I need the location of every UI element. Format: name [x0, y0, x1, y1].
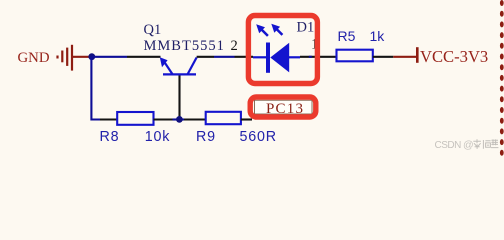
svg-text:R5: R5 [338, 28, 356, 44]
svg-text:R8: R8 [100, 129, 120, 145]
wire GND junction to Q1 emitter [92, 56, 127, 58]
wire bottom rail left [100, 118, 117, 120]
R9 left pin [184, 118, 206, 120]
svg-text:CSDN: CSDN [435, 140, 462, 151]
svg-text:10k: 10k [145, 129, 171, 145]
highlight box D1 [248, 16, 317, 84]
junction node A [88, 53, 95, 60]
Q1 base pin [178, 76, 180, 118]
transistor Q1 body [163, 58, 197, 75]
watermark CJK glyph blocks [473, 139, 498, 149]
wire junction down to bottom rail [91, 57, 100, 120]
svg-text:Q1: Q1 [144, 22, 162, 38]
Q1 emitter arrowhead [160, 57, 168, 67]
LED D1 symbol [253, 43, 300, 73]
dashed region border right [500, 0, 504, 156]
R5 right pin [373, 56, 394, 58]
net label plate PC13 [255, 100, 313, 114]
R8 right pin [154, 118, 173, 120]
wire stub [309, 56, 312, 58]
ground symbol [58, 45, 91, 71]
R9 right pin to PC13 [241, 118, 252, 120]
svg-text:MMBT5551: MMBT5551 [144, 38, 225, 54]
svg-text:2: 2 [231, 38, 238, 54]
resistor R5 [337, 50, 373, 62]
svg-text:GND: GND [18, 50, 50, 66]
Q1 emitter pin [127, 56, 161, 58]
junction node B [176, 116, 183, 123]
svg-text:VCC-3V3: VCC-3V3 [420, 47, 488, 66]
resistor R8 [117, 112, 153, 125]
wire R8 to junction [173, 118, 185, 120]
svg-text:R9: R9 [196, 129, 216, 145]
LED emission arrow 1 [261, 29, 268, 36]
wire Q1 collector to D1 [214, 56, 235, 58]
highlight box PC13 [250, 97, 316, 117]
svg-text:D1: D1 [297, 20, 315, 36]
D1 anode pin and wire to R5 [300, 56, 337, 58]
LED emission arrow 2 [276, 28, 283, 35]
D1 cathode pin [235, 56, 254, 58]
power port VCC-3V3 [393, 47, 417, 63]
resistor R9 [206, 112, 241, 124]
Q1 collector pin, pin 2 [197, 56, 214, 58]
svg-text:560R: 560R [240, 129, 277, 145]
svg-text:1k: 1k [370, 28, 386, 44]
svg-text:@: @ [463, 139, 474, 151]
